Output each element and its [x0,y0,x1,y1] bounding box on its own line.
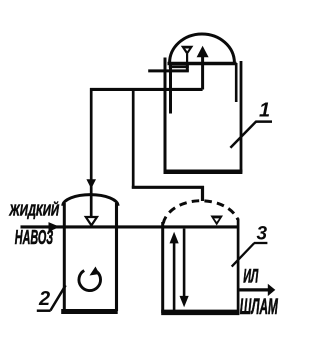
pipe: upper gas pipe into tank 1 [148,69,189,72]
level mark nabla tank 2 [86,217,97,225]
tank 2: dome [63,195,118,206]
svg-text:НАВОЗ: НАВОЗ [15,227,53,249]
level mark nabla tank 1 [181,46,194,63]
pipe: drop into tank 3 dome [201,186,204,201]
tank 1: bell dome arc [170,34,235,63]
label 1 leader [230,122,256,148]
pipe: short double line below dome base [169,66,189,69]
level mark nabla tank 3 [210,216,223,226]
outlet arrow from tank 3 [239,284,275,296]
svg-text:2: 2 [38,288,50,310]
label 1 underline [255,120,272,123]
tank 2: bottom [61,309,117,314]
pipe: lower gas pipe (manifold) [90,88,203,91]
svg-text:ЖИДКИЙ: ЖИДКИЙ [9,199,60,219]
circulation pipe up (arrow up) in tank 3 [170,232,179,311]
svg-text:3: 3 [257,224,268,245]
svg-text:1: 1 [259,100,270,122]
arrowhead down into tank 2 [86,179,96,189]
mixer symbol in tank 2 [79,267,101,291]
pipe: riser stub under level mark [186,64,189,72]
tank 3: dashed dome [163,201,238,224]
label 2 underline [37,309,51,312]
tank 1: bottom [164,170,243,175]
tank 1 gasholder: outer left wall [164,58,167,173]
pipe: drop toward tank 3 [132,88,135,189]
pipe: drop to tank 2 [90,88,93,225]
tank 1: bell right wall [235,63,238,102]
feed arrowhead [49,222,60,232]
label 3 leader [232,243,255,267]
arrow up inside tank 1 [197,46,209,90]
tank 2: right wall [115,203,118,311]
tank 1: dome base line [168,62,237,65]
tank 2: left wall [63,203,66,311]
svg-text:ИЛ: ИЛ [243,266,259,287]
svg-text:ШЛАМ: ШЛАМ [240,294,278,319]
feed line with level line across tanks 2-3 [21,225,239,228]
circulation pipe down (arrow down) in tank 3 [180,229,189,308]
tank 3: right wall [237,219,240,314]
label 3 underline [254,242,267,244]
tank 1: bell left wall [169,63,172,114]
tank 3: bottom [161,310,239,316]
pipe: horizontal run to tank 3 [132,186,204,189]
tank 3: left wall [161,222,164,313]
label 2 leader [50,285,65,310]
tank 1: outer right wall [240,61,243,173]
